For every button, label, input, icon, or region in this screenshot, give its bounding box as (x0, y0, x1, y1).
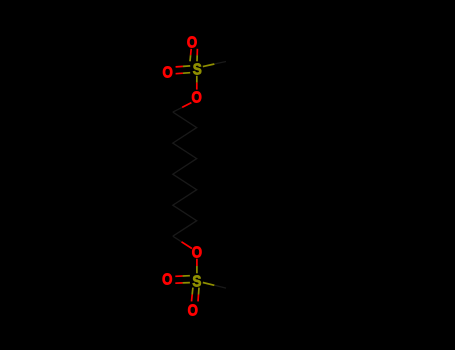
svg-text:O: O (187, 35, 197, 52)
svg-text:O: O (192, 245, 202, 262)
svg-text:O: O (162, 65, 172, 82)
svg-text:S: S (193, 61, 202, 78)
svg-text:O: O (188, 303, 198, 320)
svg-text:S: S (192, 274, 201, 291)
svg-text:O: O (162, 272, 172, 289)
svg-text:O: O (192, 90, 202, 107)
